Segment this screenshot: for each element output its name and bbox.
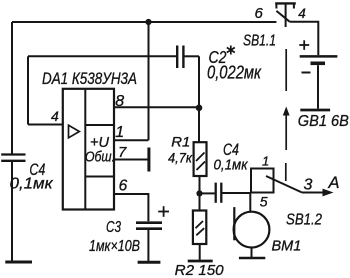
op-amp triangle — [69, 125, 80, 138]
battery GB1 minus plate — [311, 61, 326, 65]
svg-text:0,1мк: 0,1мк — [214, 158, 249, 174]
ground bar left — [5, 261, 32, 264]
switch SB1.1 blade — [276, 11, 289, 22]
ground bar BM1 — [239, 257, 265, 260]
svg-text:C3: C3 — [106, 219, 121, 236]
wire top rail — [12, 21, 276, 23]
svg-text:3: 3 — [304, 177, 313, 194]
wire R2 down — [199, 244, 201, 260]
svg-text:0,1мк: 0,1мк — [10, 176, 55, 193]
svg-text:C4: C4 — [223, 141, 239, 159]
capacitor C3 plates — [136, 223, 162, 229]
wire vertical C2 to R1 — [198, 56, 200, 142]
wire vertical from top dot to pin 1 — [148, 22, 150, 140]
switch SB1.2 contact box — [251, 169, 274, 193]
svg-text:BM1: BM1 — [272, 239, 302, 255]
wire pin 4 — [28, 124, 63, 126]
svg-text:4: 4 — [51, 108, 59, 124]
wire feedback loop to C2 — [28, 55, 176, 57]
ground bar battery — [300, 109, 330, 112]
arrowhead A — [323, 189, 334, 197]
switch SB1.1 cap — [275, 3, 296, 27]
capacitor C4 (mid) — [216, 183, 222, 203]
node junction dot mid — [196, 190, 202, 196]
wire C4 to SB1.2 — [222, 192, 251, 194]
svg-text:7: 7 — [118, 144, 127, 161]
svg-text:DA1 К538УН3А: DA1 К538УН3А — [42, 69, 137, 88]
wire feedback loop vertical — [27, 56, 29, 124]
link arrowhead — [283, 107, 290, 116]
capacitor C4 (left) — [1, 155, 25, 161]
wire junction to C4 — [200, 192, 215, 194]
svg-text:GB1 6В: GB1 6В — [298, 113, 349, 130]
wire pin 6 — [114, 194, 148, 221]
op-amp divider h1 — [85, 124, 114, 126]
wire pin 1 horizontal — [114, 139, 149, 141]
wire C3 down — [147, 230, 149, 261]
wire C2 to vertical — [185, 55, 200, 57]
wire output arrow to A — [302, 192, 324, 194]
op-amp U1 box DA1 — [63, 89, 114, 210]
svg-text:SB1.1: SB1.1 — [243, 33, 276, 50]
svg-text:+U: +U — [90, 134, 109, 151]
resistor R2 — [193, 211, 206, 245]
svg-text:4,7к: 4,7к — [168, 151, 193, 166]
resistor R1 — [194, 142, 207, 176]
microphone BM1 circle — [234, 212, 270, 248]
node junction dot top — [145, 19, 151, 25]
wire left rail lower — [11, 162, 13, 261]
op-amp divider vertical — [84, 89, 86, 210]
svg-text:5: 5 — [260, 193, 268, 209]
svg-text:1мк×10В: 1мк×10В — [89, 238, 140, 255]
svg-text:R1: R1 — [171, 133, 190, 149]
svg-text:8: 8 — [115, 93, 124, 110]
battery GB1 plus plate — [300, 55, 338, 58]
wire SB1.1 to battery — [290, 22, 319, 55]
C3 plus sign — [158, 206, 169, 217]
wire pin 7 — [114, 159, 148, 161]
capacitor C2 — [177, 46, 183, 69]
svg-text:6: 6 — [255, 5, 264, 22]
wire left rail upper — [11, 22, 13, 154]
svg-text:0,022мк: 0,022мк — [207, 63, 262, 83]
battery plus sign — [299, 40, 309, 50]
ground bar C3 — [138, 261, 161, 264]
svg-text:A: A — [328, 174, 340, 192]
common T-bar pin 7 — [147, 148, 150, 172]
wire pin 8 — [114, 106, 199, 108]
svg-text:1: 1 — [262, 154, 269, 169]
svg-text:1: 1 — [115, 124, 124, 141]
microphone BM1 left bar — [233, 207, 235, 240]
node junction dot pin8 — [196, 105, 203, 112]
svg-text:6: 6 — [119, 178, 128, 195]
svg-text:Обш.: Обш. — [85, 150, 115, 166]
switch SB1.2 blade — [266, 176, 302, 193]
wire battery down — [317, 65, 319, 108]
mechanical link dashed — [285, 49, 287, 181]
op-amp divider h2 — [85, 176, 114, 178]
label C2 star — [227, 46, 235, 55]
svg-text:SB1.2: SB1.2 — [286, 212, 322, 229]
wire SB1.2 to BM1 — [249, 193, 251, 212]
svg-text:4: 4 — [298, 6, 306, 21]
resistor R1 slashes — [196, 153, 205, 171]
wire R1 to junction — [199, 176, 201, 211]
resistor R2 slashes — [196, 221, 205, 235]
battery minus sign — [302, 72, 311, 74]
svg-text:R2 150: R2 150 — [175, 262, 225, 278]
wire BM1 down — [251, 248, 253, 258]
ground bar R2 — [188, 260, 213, 263]
